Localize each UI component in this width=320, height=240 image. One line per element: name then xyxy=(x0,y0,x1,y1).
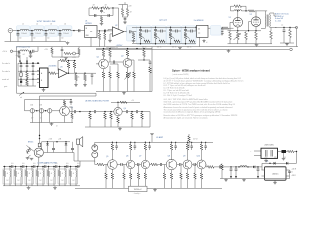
oscillator ground rail xyxy=(96,91,152,93)
capacitor C2 xyxy=(31,31,33,34)
resistor R4a shunt xyxy=(99,30,100,31)
transistor Q6 xyxy=(127,160,135,168)
mains input wires xyxy=(254,150,261,152)
transistor Q3 xyxy=(60,106,70,116)
matrix feed arrows xyxy=(19,57,21,62)
svg-text:0.5: 0.5 xyxy=(30,55,32,57)
detector out wire xyxy=(42,142,71,148)
LF amp emitter resistors xyxy=(111,169,113,173)
wire psu right down xyxy=(296,152,298,164)
resistor R23 xyxy=(109,66,111,72)
resistor R16 vertical xyxy=(68,61,70,62)
wire bank to out xyxy=(73,153,75,162)
matrix row 2 components xyxy=(20,71,22,72)
capacitor C1 xyxy=(17,31,19,34)
top rail tubes xyxy=(246,10,249,12)
electrolytic C26 xyxy=(92,152,98,158)
resistor R30b base xyxy=(110,112,112,113)
svg-text:L1: L1 xyxy=(22,24,24,26)
wire V1 grid xyxy=(230,21,233,23)
svg-text:1u5: 1u5 xyxy=(33,163,36,165)
switch arrow on bus xyxy=(19,92,24,95)
resistor R28 Q3 collector xyxy=(64,100,66,101)
resistor collector Q10 xyxy=(201,142,203,144)
interstage resistor xyxy=(150,164,151,166)
filter section 6 resistor xyxy=(59,167,61,171)
wire electrolytics xyxy=(94,142,96,145)
wire from bus to detector xyxy=(40,93,97,137)
wire opamp U3B output xyxy=(68,72,97,74)
svg-text:10k: 10k xyxy=(77,77,80,79)
filter section 2 resistor xyxy=(15,167,17,171)
resistor R3 vertical xyxy=(119,4,123,6)
filter section 6 box xyxy=(58,169,67,184)
svg-text:t/m DVFE switches of ZY178: Tv: t/m DVFE switches of ZY178: Tvx ZWF8 svc… xyxy=(164,103,235,106)
JFET T1 xyxy=(34,148,43,157)
capacitor C12 xyxy=(283,28,285,31)
resistor R4b shunt xyxy=(104,30,105,31)
transistor Q10 xyxy=(197,160,206,169)
svg-text:osc: osc xyxy=(90,31,93,33)
resistor R16b vertical xyxy=(74,60,75,61)
coupling cap Q5-Q6 xyxy=(117,164,120,166)
wire V1 plate xyxy=(237,11,239,18)
wire top feed mid-left xyxy=(25,99,72,101)
title box xyxy=(129,186,148,191)
capacitor C14 shunt xyxy=(30,51,32,52)
filter section 7 inductor xyxy=(75,167,77,171)
RC stage 2 capacitor xyxy=(155,27,156,28)
capacitor C18 xyxy=(74,110,75,113)
svg-text:osc: osc xyxy=(198,32,201,34)
long bus wire 2 xyxy=(96,48,289,50)
resistor R5 to ground xyxy=(133,31,135,34)
tube V1 plate coil xyxy=(234,10,242,11)
psu cap ground arrows xyxy=(230,176,232,178)
transistor Q2 xyxy=(123,59,132,68)
wire Q3 emitter xyxy=(64,116,66,123)
output resistor LF amp xyxy=(208,166,215,169)
bias cluster C resistor xyxy=(64,52,71,54)
wire V2 grid xyxy=(249,21,252,23)
capacitor C6 twin-T center xyxy=(101,8,103,10)
capacitor C20 xyxy=(126,110,127,113)
filter section 3 resistor xyxy=(26,167,28,171)
pot stubs to rail xyxy=(31,113,33,123)
RC stage 1 capacitor xyxy=(140,27,141,28)
svg-text:U4: U4 xyxy=(198,28,200,30)
capacitor C30 psu xyxy=(257,167,259,169)
ground tubes xyxy=(255,43,257,46)
ground band filter xyxy=(28,186,30,188)
resistor R21 xyxy=(109,49,111,50)
capacitor C11 to ground xyxy=(221,28,223,30)
RC stage 4 resistor xyxy=(184,32,187,39)
capacitor C7 xyxy=(95,14,96,17)
svg-text:1u5: 1u5 xyxy=(44,163,47,165)
filter section 2 box xyxy=(14,169,23,184)
trimmer pot oscillator xyxy=(127,74,131,78)
wire Q2 emitter xyxy=(127,67,129,72)
filter section 7 box xyxy=(69,169,78,184)
svg-text:synt gen: synt gen xyxy=(159,19,168,22)
svg-text:100mH: 100mH xyxy=(63,33,69,35)
input resistor LF amp xyxy=(97,163,104,166)
svg-text:+24: +24 xyxy=(131,100,134,102)
filter section 1 box xyxy=(3,169,12,184)
ground symbol under ladder xyxy=(67,41,69,44)
diode D3 xyxy=(47,142,49,144)
svg-text:100mH: 100mH xyxy=(49,33,55,35)
svg-text:SYNT DELAY LINE: SYNT DELAY LINE xyxy=(37,20,56,23)
RC stage 3 capacitor xyxy=(170,27,171,28)
transistor Q4 xyxy=(114,107,122,115)
inductor L5 xyxy=(213,27,220,28)
wire Q1 emitter xyxy=(103,69,105,72)
RC stage 3 trimmer xyxy=(169,35,174,39)
resistor R7 top xyxy=(234,5,242,8)
coupling cap Q6-Q7 xyxy=(135,164,137,166)
wire Q4 collector xyxy=(117,102,119,107)
svg-text:Q5: Q5 xyxy=(106,156,108,158)
resistor R2b twin-T center xyxy=(101,16,103,17)
resistor R2 twin-T xyxy=(103,7,110,10)
svg-text:4n7: 4n7 xyxy=(31,117,34,119)
IC U1 box xyxy=(85,26,98,38)
capacitor C28 psu xyxy=(230,167,232,169)
wire V2 cathode xyxy=(255,26,257,30)
capacitor C15 xyxy=(91,73,93,75)
svg-text:2k2: 2k2 xyxy=(39,180,41,182)
RC stage 2 series cap xyxy=(156,30,161,32)
wire U4 out xyxy=(208,27,213,29)
wire synt gen to U4 xyxy=(195,27,196,28)
svg-text:-2dB: -2dB xyxy=(58,139,61,141)
connector row wire xyxy=(25,100,31,111)
subsonic ground rail xyxy=(85,126,150,128)
RC stage 4 capacitor xyxy=(185,27,186,28)
capacitor C21 xyxy=(136,110,137,113)
wire transformer secondary xyxy=(270,13,277,16)
svg-text:Spicer - WZ80 analyzer inboard: Spicer - WZ80 analyzer inboard xyxy=(172,68,210,72)
psu ground under transformer xyxy=(265,158,267,160)
resistor R22 collector Q2 xyxy=(127,49,129,50)
node n4 xyxy=(59,30,60,31)
capacitor C3 xyxy=(45,31,47,34)
wire U3A bottom xyxy=(43,88,45,90)
svg-text:10n: 10n xyxy=(19,38,22,40)
output cap xyxy=(219,165,220,168)
capacitor C4 xyxy=(59,31,61,34)
wire V1 cathode xyxy=(237,27,239,31)
svg-text:All reproduction rights are re: All reproduction rights are reserved. No… xyxy=(164,117,209,120)
wire oscillator output right xyxy=(151,47,153,92)
svg-text:+2.4 lvl: +2.4 lvl xyxy=(2,51,8,53)
capacitor C23 xyxy=(53,142,55,149)
wire into U5 xyxy=(261,163,263,170)
wire U1 bottom to rail xyxy=(90,37,92,46)
capacitor C28b collector xyxy=(70,100,72,102)
svg-text:LM2x15: LM2x15 xyxy=(272,174,278,176)
oscillator supply rail xyxy=(96,48,152,50)
RC stage 3 series cap xyxy=(171,30,176,32)
bus corner to lower section xyxy=(60,92,96,94)
twin-T feedback network xyxy=(89,7,92,9)
filter section 5 inductor xyxy=(53,167,55,171)
filter cap C44 on rail xyxy=(48,166,50,168)
svg-text:4.0 k lowpass Cut: 4.0 k lowpass Cut xyxy=(16,46,31,49)
svg-text:Q7: Q7 xyxy=(139,155,141,157)
svg-text:Z = 5k2: Z = 5k2 xyxy=(275,21,281,23)
tube V2 xyxy=(251,17,261,27)
matrix row 2 xyxy=(18,70,40,72)
diode D5 xyxy=(274,162,276,165)
svg-text:0V: 0V xyxy=(284,157,286,159)
wire ladder output xyxy=(73,30,74,31)
svg-text:4k7: 4k7 xyxy=(130,11,133,13)
transistor Q8 xyxy=(166,159,177,170)
svg-text:U3: U3 xyxy=(60,66,62,68)
filter section 5 resistor xyxy=(48,167,50,171)
subsonic filter wire xyxy=(70,111,74,113)
band filter top rail xyxy=(3,166,80,168)
bottom rail mid-left xyxy=(30,122,73,124)
resistor R11 xyxy=(255,31,257,32)
wire P2-P3 xyxy=(44,110,48,112)
emitter resistors xyxy=(102,72,105,78)
svg-text:10n: 10n xyxy=(47,38,50,40)
bias cluster C resistor 2 xyxy=(78,47,80,49)
svg-text:U5: U5 xyxy=(266,161,268,163)
svg-text:LM7805: LM7805 xyxy=(85,23,92,25)
capacitor C5 coupling xyxy=(79,29,80,32)
twin-T bottom arm xyxy=(89,8,102,16)
tube cathode rail xyxy=(228,30,262,32)
svg-text:Q8: Q8 xyxy=(168,155,170,157)
resistor R20 collector xyxy=(103,49,105,50)
filter section 1 inductor xyxy=(9,167,11,171)
capacitor bypass Q7 xyxy=(149,142,151,146)
wire P1-P2 xyxy=(35,110,40,112)
filter section 3 box xyxy=(25,169,34,184)
LF amp base resistors xyxy=(105,165,107,174)
ground JFET xyxy=(30,158,34,160)
bias cluster C cap xyxy=(61,47,63,50)
filter section 4 resistor xyxy=(37,167,39,171)
terminal out xyxy=(295,26,297,28)
filter cap C41 on rail xyxy=(15,166,17,168)
output terminal network xyxy=(275,27,297,29)
svg-text:+12/24V: +12/24V xyxy=(116,45,124,47)
svg-text:LF AMP: LF AMP xyxy=(156,136,164,139)
section highlight boxes for delay line xyxy=(17,26,30,36)
ground mid-left xyxy=(51,123,53,124)
speaker LS1 xyxy=(77,139,80,144)
resistor R38 psu xyxy=(221,163,223,166)
capacitor bypass Q6 xyxy=(134,142,136,146)
resistor collector Q7 xyxy=(144,142,146,144)
RC stage 2 resistor xyxy=(154,32,157,39)
potentiometer arrow xyxy=(234,34,241,41)
svg-text:4k7 lvl: 4k7 lvl xyxy=(193,138,198,140)
svg-text:2k2: 2k2 xyxy=(6,180,8,182)
inductor L1 xyxy=(20,29,28,30)
svg-text:100mH: 100mH xyxy=(21,33,27,35)
resistor R36 feed xyxy=(188,134,190,136)
matrix row 3 xyxy=(18,78,40,80)
IC U3A pins xyxy=(37,70,40,72)
transformer T2 box xyxy=(261,148,278,158)
resistor R26 xyxy=(143,49,145,50)
capacitor bypass Q9 xyxy=(191,142,193,146)
inductor L2 xyxy=(34,29,42,30)
pot P1 xyxy=(30,109,34,113)
LF amp top rail xyxy=(95,141,213,143)
U5 pins right xyxy=(286,169,290,171)
capacitor C27 psu xyxy=(289,170,291,171)
capacitor C9 xyxy=(123,16,128,18)
resistor R24 xyxy=(117,64,119,72)
resistor R30a feed xyxy=(120,101,127,103)
LF amp ground xyxy=(154,188,156,189)
svg-text:LD: 24k' 4. 9 pk LT analyse TT: LD: 24k' 4. 9 pk LT analyse TT4m5 xyxy=(164,95,192,97)
wire transformer primary xyxy=(264,11,266,15)
svg-text:+24V: +24V xyxy=(128,5,132,7)
synt gen section boxes xyxy=(137,26,152,45)
capacitor C22 xyxy=(39,137,41,143)
svg-text:230V 50Hz: 230V 50Hz xyxy=(264,144,273,146)
svg-text:L4: L4 xyxy=(64,24,66,26)
svg-text:2k2: 2k2 xyxy=(61,180,63,182)
RC stage 4 trimmer xyxy=(184,35,189,39)
resistor R28b right xyxy=(71,107,73,113)
inductor L8 psu xyxy=(240,166,247,167)
transistor Q7 xyxy=(141,160,149,168)
psu bottom rail xyxy=(220,178,290,180)
svg-text:0: 0 xyxy=(292,172,293,174)
capacitor C8 xyxy=(108,14,109,17)
wire rail drop xyxy=(151,136,153,142)
capacitor C29 psu xyxy=(235,167,237,169)
svg-text:2k2: 2k2 xyxy=(72,180,74,182)
ground twin-T xyxy=(100,23,104,25)
svg-text:10n: 10n xyxy=(33,38,36,40)
filter section 2 inductor xyxy=(20,167,22,171)
filter cap C40 on rail xyxy=(4,166,6,168)
capacitor bypass Q5 xyxy=(116,142,118,146)
svg-text:2xLM380N: 2xLM380N xyxy=(194,20,204,22)
svg-text:1u5: 1u5 xyxy=(22,163,25,165)
ground on bus 2 xyxy=(228,49,230,50)
inductor L3 xyxy=(48,29,56,30)
svg-text:2k2: 2k2 xyxy=(28,180,30,182)
svg-text:1u5: 1u5 xyxy=(11,163,14,165)
output transformer T1 xyxy=(264,15,266,27)
matrix row 1 components xyxy=(20,64,22,65)
resistor R6 xyxy=(223,27,229,30)
svg-text:100mH: 100mH xyxy=(35,33,41,35)
node n1 xyxy=(17,30,18,31)
svg-text:L3: L3 xyxy=(50,24,52,26)
filter cap C45 on rail xyxy=(59,166,61,168)
diode D4 xyxy=(65,142,67,144)
wire Q4 output xyxy=(122,111,126,113)
highlight box after opamp xyxy=(127,26,138,42)
ground right xyxy=(280,42,294,44)
filter section 3 inductor xyxy=(31,167,33,171)
capacitor C17 xyxy=(149,60,151,62)
wire V2 plate xyxy=(255,11,257,17)
ground band filter 2 xyxy=(54,186,56,188)
wire subsonic out xyxy=(146,111,150,113)
transistor Q9 xyxy=(183,160,192,169)
svg-text:WZ80-v2: WZ80-v2 xyxy=(134,189,142,191)
svg-text:2k2: 2k2 xyxy=(17,180,19,182)
capacitor C13 shunt xyxy=(18,51,20,52)
svg-text:U2: U2 xyxy=(115,25,117,27)
RC stage 3 resistor xyxy=(169,32,172,39)
filter cap C46 on rail xyxy=(70,166,72,168)
filter row wire xyxy=(13,50,19,52)
resistor R27 xyxy=(149,66,151,67)
capacitor bypass Q10 xyxy=(205,142,207,146)
resistor R12 xyxy=(289,28,291,30)
svg-text:2xLM386: 2xLM386 xyxy=(49,66,57,68)
RC stage 1 series cap xyxy=(141,30,146,32)
regulator U5 box xyxy=(265,167,287,180)
svg-text:4n7: 4n7 xyxy=(23,54,26,56)
svg-text:Q2: Q2 xyxy=(121,55,124,57)
U5 bottom pin xyxy=(274,180,276,182)
diode D7 psu xyxy=(247,166,252,168)
svg-text:LB MHL SUBSONIC FILTER: LB MHL SUBSONIC FILTER xyxy=(85,100,110,102)
resistor R11b under transformer xyxy=(270,28,272,32)
input jack J1 xyxy=(8,28,12,32)
svg-text:1u5: 1u5 xyxy=(66,163,69,165)
resistor R37 xyxy=(286,151,288,153)
feedback resistor R15 xyxy=(58,60,60,62)
resistor R33 shunt xyxy=(141,112,143,113)
resistor R17 series xyxy=(49,72,56,75)
capacitor C24 xyxy=(72,142,74,149)
bottom rail tubes xyxy=(228,43,273,45)
wire Q10 out xyxy=(205,165,207,167)
wire row to bus xyxy=(37,47,39,52)
wire opamp inputs xyxy=(108,29,113,31)
U5 pins left xyxy=(262,169,265,171)
fuse F1 xyxy=(278,151,282,153)
svg-text:+7dB: +7dB xyxy=(49,139,53,141)
resistor R19 shunt xyxy=(84,73,86,74)
resistor R7b on rail xyxy=(249,10,255,12)
node n3 xyxy=(45,30,46,31)
wire Q2 collector xyxy=(127,58,129,60)
filter section 4 box xyxy=(36,169,45,184)
psu left filter xyxy=(220,166,262,168)
svg-text:L2: L2 xyxy=(36,24,38,26)
svg-text:Q3: Q3 xyxy=(71,107,73,109)
svg-text:4k7: 4k7 xyxy=(105,5,108,7)
filter section 5 box xyxy=(47,169,56,184)
svg-text:4k7: 4k7 xyxy=(93,5,96,7)
coupling cap Q9-Q10 xyxy=(192,164,194,166)
RC stage 1 trimmer xyxy=(139,35,144,39)
wire P3 to Q3 xyxy=(52,110,60,112)
svg-text:Fx order lo: Fx order lo xyxy=(2,70,10,73)
band filter bottom rail xyxy=(3,185,80,187)
detector bank rail xyxy=(44,152,74,154)
wire opamp output xyxy=(124,31,130,33)
